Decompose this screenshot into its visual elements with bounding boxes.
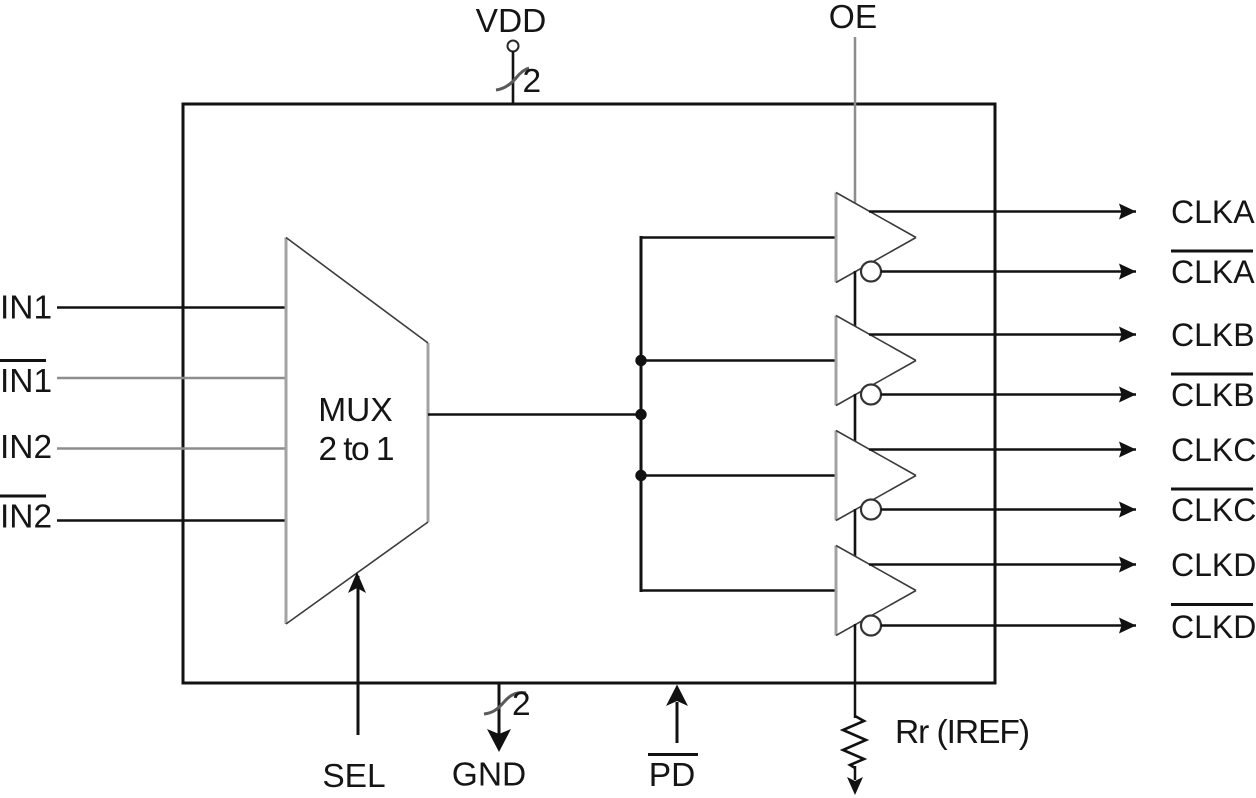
buffer C xyxy=(836,431,916,521)
PDbar overline xyxy=(648,753,698,756)
svg-text:IN1: IN1 xyxy=(0,363,52,400)
arrowhead CLKCbar xyxy=(1119,502,1136,518)
svg-text:IN2: IN2 xyxy=(0,429,52,466)
junction dot C input xyxy=(635,470,646,481)
wire distribution vertical xyxy=(640,236,643,592)
block outline xyxy=(183,104,995,683)
svg-text:CLKD: CLKD xyxy=(1171,547,1256,583)
wire OE below D to resistor xyxy=(854,624,857,718)
arrowhead CLKAbar xyxy=(1119,264,1136,280)
svg-text:SEL: SEL xyxy=(322,758,385,795)
wire OE between A and B xyxy=(854,271,857,326)
buffer D xyxy=(836,546,916,636)
arrowhead GND down xyxy=(487,729,511,752)
wire GND xyxy=(498,683,501,734)
svg-text:GND: GND xyxy=(452,757,526,794)
wire SEL xyxy=(357,576,360,735)
svg-text:CLKD: CLKD xyxy=(1171,609,1256,645)
wire VDD to box xyxy=(512,51,515,104)
wire IN1 xyxy=(57,306,286,309)
VDD terminal circle xyxy=(508,41,519,52)
wire IN2 xyxy=(57,447,286,450)
IN1bar overline xyxy=(0,359,46,362)
wire PD xyxy=(676,702,679,743)
svg-text:CLKC: CLKC xyxy=(1171,492,1256,528)
arrowhead IREF down xyxy=(847,777,863,795)
junction dot B input xyxy=(635,355,646,366)
resistor Rr xyxy=(843,716,866,768)
wire CLKA out xyxy=(869,210,1136,213)
wire below resistor xyxy=(854,766,857,780)
wire CLKC out xyxy=(869,448,1136,451)
svg-text:CLKC: CLKC xyxy=(1171,432,1256,468)
wire mux output xyxy=(428,413,642,416)
wire IN2bar xyxy=(57,519,286,522)
svg-text:CLKB: CLKB xyxy=(1171,317,1255,353)
arrowhead SEL up xyxy=(348,572,366,593)
svg-text:IN2: IN2 xyxy=(0,499,52,536)
svg-text:VDD: VDD xyxy=(476,3,547,40)
svg-text:OE: OE xyxy=(829,0,877,36)
wire OE down through buffers xyxy=(854,37,857,630)
buffer A xyxy=(836,193,916,283)
svg-text:CLKA: CLKA xyxy=(1171,194,1255,230)
wire CLKB out xyxy=(869,333,1136,336)
buffer B xyxy=(836,316,916,406)
svg-text:MUX: MUX xyxy=(318,392,392,429)
svg-text:CLKB: CLKB xyxy=(1171,377,1255,413)
svg-text:2: 2 xyxy=(523,63,542,100)
arrowhead CLKDbar xyxy=(1119,618,1136,634)
GND bus slash xyxy=(484,692,526,714)
wire CLKAbar out xyxy=(881,270,1136,273)
svg-text:Rr (IREF): Rr (IREF) xyxy=(895,714,1030,751)
svg-text:CLKA: CLKA xyxy=(1171,254,1255,290)
svg-text:2 to 1: 2 to 1 xyxy=(319,431,395,468)
CLKBbar overline xyxy=(1171,373,1253,376)
mux U1 body xyxy=(286,238,428,625)
wire to buffer B xyxy=(640,359,836,362)
arrowhead CLKB xyxy=(1119,327,1136,343)
wire to buffer A xyxy=(640,236,836,239)
arrowhead CLKA xyxy=(1119,204,1136,220)
wire CLKBbar out xyxy=(881,393,1136,396)
bubble C xyxy=(861,500,881,520)
arrowhead CLKC xyxy=(1119,442,1136,458)
arrowhead PD up xyxy=(666,685,688,707)
arrowhead CLKD xyxy=(1119,557,1136,573)
wire CLKD out xyxy=(869,563,1136,566)
wire CLKCbar out xyxy=(881,508,1136,511)
CLKAbar overline xyxy=(1171,250,1253,253)
junction dot mux output xyxy=(635,409,646,420)
CLKDbar overline xyxy=(1171,603,1253,606)
VDD bus slash xyxy=(496,68,529,90)
CLKCbar overline xyxy=(1171,488,1253,491)
wire to buffer D xyxy=(640,589,836,592)
IN2bar overline xyxy=(0,495,46,498)
wire CLKDbar out xyxy=(881,624,1136,627)
wire to buffer C xyxy=(640,474,836,477)
svg-text:2: 2 xyxy=(512,686,531,723)
wire OE between B and C xyxy=(854,394,857,441)
wire IN1bar xyxy=(57,377,286,380)
bubble B xyxy=(861,385,881,405)
svg-text:IN1: IN1 xyxy=(0,290,52,327)
wire OE between C and D xyxy=(854,509,857,556)
bubble D xyxy=(861,616,881,636)
arrowhead CLKBbar xyxy=(1119,387,1136,403)
bubble A xyxy=(861,262,881,282)
svg-text:PD: PD xyxy=(649,757,696,794)
